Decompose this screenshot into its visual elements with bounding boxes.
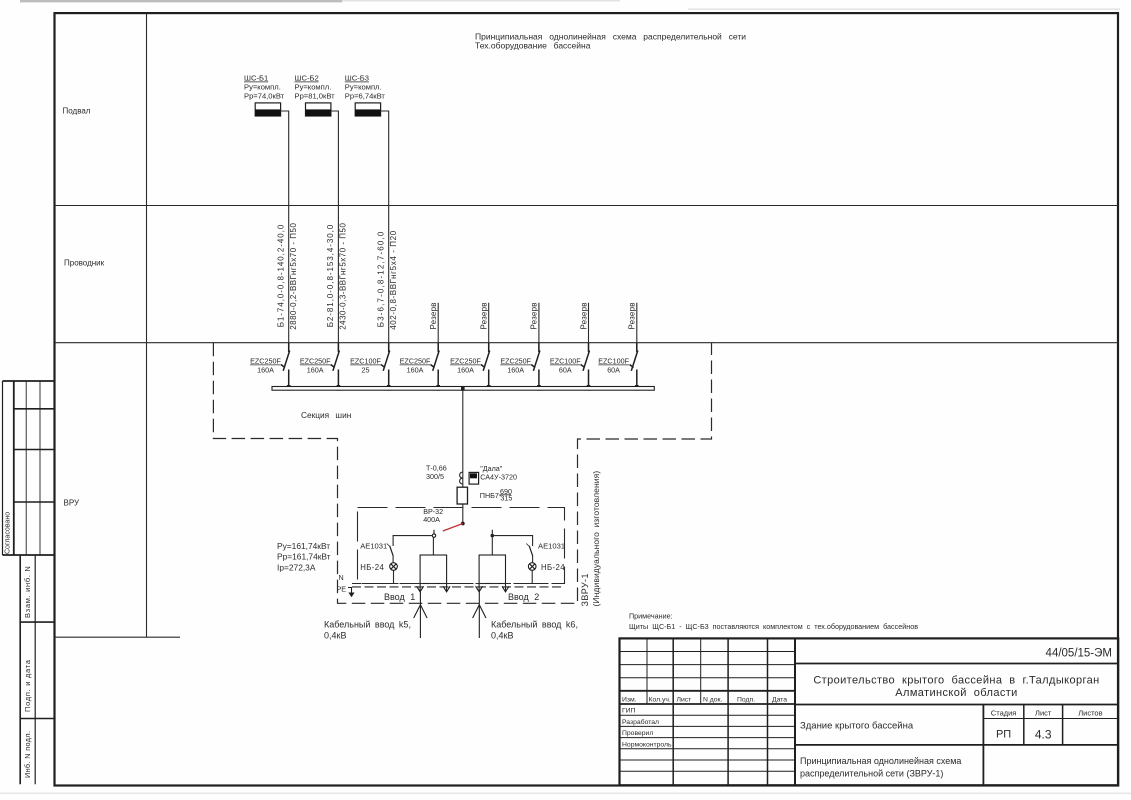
VRU outer dashed boundary xyxy=(213,343,711,604)
svg-text:Примечание:: Примечание: xyxy=(629,612,673,621)
breaker QF3 EZC100F 25 xyxy=(350,343,390,391)
svg-text:Рр=6,74кВт: Рр=6,74кВт xyxy=(345,91,386,100)
svg-text:EZC250F: EZC250F xyxy=(250,357,281,366)
branch bus 1 xyxy=(393,536,432,546)
svg-text:EZC100F: EZC100F xyxy=(550,357,581,366)
svg-text:Ру=компл.: Ру=компл. xyxy=(244,82,281,91)
svg-text:EZC100F: EZC100F xyxy=(598,357,629,366)
svg-text:44/05/15-ЭМ: 44/05/15-ЭМ xyxy=(1046,648,1112,660)
svg-text:Секция шин: Секция шин xyxy=(301,410,351,420)
svg-text:СА4У-3720: СА4У-3720 xyxy=(480,473,517,482)
svg-text:2430-0,3-ВВГнг5х70 - П50: 2430-0,3-ВВГнг5х70 - П50 xyxy=(339,223,348,330)
svg-text:Резерв: Резерв xyxy=(480,302,489,329)
svg-text:АЕ1031: АЕ1031 xyxy=(538,542,565,551)
svg-text:315: 315 xyxy=(500,494,512,503)
title block header labels xyxy=(622,697,787,749)
busbar section xyxy=(272,387,654,391)
left lower attachment boxes xyxy=(20,555,54,784)
svg-text:Подп.: Подп. xyxy=(737,697,755,704)
breaker AE1031 right xyxy=(529,546,532,556)
wire panel3 to feeder3 xyxy=(381,111,389,206)
svg-text:ВРУ: ВРУ xyxy=(64,499,80,508)
svg-text:Б3-6,7-0,8-12,7-60,0: Б3-6,7-0,8-12,7-60,0 xyxy=(377,231,386,328)
transfer box input 2 xyxy=(479,555,505,584)
row label column divider xyxy=(146,13,148,637)
cable k5 label xyxy=(324,619,411,640)
wire feeder2 xyxy=(337,206,339,353)
cable entry k5 xyxy=(414,592,427,638)
svg-text:Резерв: Резерв xyxy=(530,302,539,329)
svg-text:Лист: Лист xyxy=(1035,709,1052,718)
svg-text:Нормоконтроль: Нормоконтроль xyxy=(622,741,672,748)
svg-text:N: N xyxy=(339,573,344,582)
current transformer T-0,66 300/5 xyxy=(460,472,463,484)
svg-text:160A: 160A xyxy=(307,366,324,375)
svg-text:160A: 160A xyxy=(457,366,474,375)
svg-text:60A: 60A xyxy=(559,366,572,375)
svg-text:402-0,8-ВВГнг5х4 - П20: 402-0,8-ВВГнг5х4 - П20 xyxy=(389,230,398,330)
svg-text:ШС-Б3: ШС-Б3 xyxy=(345,74,369,83)
svg-text:Стадия: Стадия xyxy=(991,709,1017,718)
lamp NB-24 left xyxy=(390,563,398,571)
svg-text:EZC250F: EZC250F xyxy=(450,357,481,366)
reserve stub 1 xyxy=(437,303,439,352)
N bus dashed xyxy=(352,583,565,585)
breaker QF4 EZC250F 160A xyxy=(400,343,440,391)
wire feeder1 xyxy=(288,206,290,353)
svg-text:Кол.уч.: Кол.уч. xyxy=(649,697,671,704)
svg-text:160A: 160A xyxy=(257,366,274,375)
svg-text:Листов: Листов xyxy=(1078,709,1102,718)
svg-text:Резерв: Резерв xyxy=(579,302,588,329)
svg-text:Рр=74,0кВт: Рр=74,0кВт xyxy=(244,91,285,100)
switch VR-32 label xyxy=(423,507,443,524)
cable k6 label xyxy=(491,619,578,640)
svg-text:Алматинской области: Алматинской области xyxy=(895,687,1017,699)
svg-text:Рр=161,74кВт: Рр=161,74кВт xyxy=(277,552,331,562)
svg-text:Ввод 2: Ввод 2 xyxy=(508,592,539,602)
svg-text:Инб. N подл.: Инб. N подл. xyxy=(23,731,32,778)
reserve stub 3 xyxy=(538,303,540,352)
svg-text:ГИП: ГИП xyxy=(622,708,636,715)
panel ShS-B3 xyxy=(355,103,380,116)
svg-text:Дата: Дата xyxy=(772,697,787,704)
meter Dala SA4U-3720 xyxy=(469,472,479,484)
fuse PNB7 xyxy=(457,487,467,504)
breaker AE1031 left xyxy=(390,546,393,556)
svg-text:Рр=81,0кВт: Рр=81,0кВт xyxy=(295,91,336,100)
svg-text:Кабельный ввод k6,: Кабельный ввод k6, xyxy=(491,619,578,629)
svg-text:Строительство крытого бассейна: Строительство крытого бассейна в г.Талды… xyxy=(813,675,1099,687)
note text xyxy=(629,612,918,632)
breaker QF2 EZC250F 160A xyxy=(300,343,340,391)
svg-text:4.3: 4.3 xyxy=(1035,728,1052,742)
breaker QF8 EZC100F 60A xyxy=(598,343,638,391)
reserve stub 2 xyxy=(488,303,490,352)
power summary label xyxy=(277,541,331,572)
breaker QF7 EZC100F 60A xyxy=(550,343,590,391)
svg-text:Согласовано: Согласовано xyxy=(5,512,12,554)
panel ShS-B1 label xyxy=(244,74,285,101)
svg-text:Ввод 1: Ввод 1 xyxy=(384,592,415,602)
svg-text:Б1-74,0-0,8-140,2-40,0: Б1-74,0-0,8-140,2-40,0 xyxy=(277,224,286,328)
breaker QF5 EZC250F 160A xyxy=(450,343,490,391)
svg-text:Iр=272,3А: Iр=272,3А xyxy=(277,562,316,572)
cable entry k6 xyxy=(473,592,486,638)
svg-text:Разработал: Разработал xyxy=(622,718,659,726)
breaker QF6 EZC250F 160A xyxy=(500,343,540,391)
svg-text:25: 25 xyxy=(362,366,370,375)
left approval table xyxy=(3,381,55,555)
svg-text:РП: РП xyxy=(996,729,1011,741)
stage header xyxy=(991,709,1103,718)
branch bus 2 xyxy=(492,536,532,546)
wire panel2 to feeder2 xyxy=(331,111,339,206)
svg-text:ШС-Б1: ШС-Б1 xyxy=(244,74,268,83)
panel ShS-B3 label xyxy=(345,74,386,101)
box1 terminal stubs and arrows xyxy=(417,584,451,592)
wire AE1031 to lamp left xyxy=(392,556,394,563)
svg-text:Ру=161,74кВт: Ру=161,74кВт xyxy=(277,541,330,551)
lamp NB-24 right xyxy=(528,563,536,571)
panel ShS-B2 xyxy=(306,103,331,116)
switch VR-32 right fixed contact xyxy=(491,530,495,538)
panel ShS-B1 xyxy=(255,103,280,116)
fuse label with fraction xyxy=(480,487,513,502)
svg-text:EZC250F: EZC250F xyxy=(400,357,431,366)
panel ShS-B2 label xyxy=(295,74,336,101)
svg-text:EZC250F: EZC250F xyxy=(300,357,331,366)
svg-text:EZC100F: EZC100F xyxy=(350,357,381,366)
meter label xyxy=(480,464,517,482)
svg-text:400А: 400А xyxy=(423,515,440,524)
svg-text:Т-0,66: Т-0,66 xyxy=(426,463,447,472)
svg-text:Лист: Лист xyxy=(677,697,692,704)
switch VR-32 pivot node xyxy=(461,522,465,526)
svg-text:160A: 160A xyxy=(507,366,524,375)
svg-text:Проверил: Проверил xyxy=(622,730,653,737)
svg-text:(Индивидуального изготовления): (Индивидуального изготовления) xyxy=(591,471,601,607)
svg-text:Изм.: Изм. xyxy=(622,697,637,704)
svg-text:2880-0,2-ВВГнг5х70 - П50: 2880-0,2-ВВГнг5х70 - П50 xyxy=(289,223,298,330)
svg-text:распределительной сети (ЗВРУ-1: распределительной сети (ЗВРУ-1) xyxy=(800,769,943,779)
svg-text:Резерв: Резерв xyxy=(628,302,637,329)
svg-text:160A: 160A xyxy=(407,366,424,375)
svg-text:300/5: 300/5 xyxy=(426,472,444,481)
svg-text:НБ-24: НБ-24 xyxy=(360,563,384,572)
svg-text:0,4кВ: 0,4кВ xyxy=(324,630,346,640)
svg-text:"Дала": "Дала" xyxy=(480,464,503,473)
branch 1 drop to box xyxy=(432,537,434,555)
wire panel1 to feeder1 xyxy=(281,111,289,206)
wire busbar to CT xyxy=(462,390,464,523)
svg-text:Щиты ЩС-Б1 - ЩС-Б3 поставляютс: Щиты ЩС-Б1 - ЩС-Б3 поставляются комплект… xyxy=(629,622,918,631)
svg-text:АЕ1031: АЕ1031 xyxy=(360,542,387,551)
svg-text:НБ-24: НБ-24 xyxy=(541,563,565,572)
svg-text:Ру=компл.: Ру=компл. xyxy=(345,82,382,91)
box2 terminal stubs and arrows xyxy=(476,584,509,592)
svg-text:Здание крытого бассейна: Здание крытого бассейна xyxy=(800,721,914,732)
branch 2 drop to box xyxy=(491,537,493,555)
title block xyxy=(620,638,1119,785)
row divider basement/conductor xyxy=(55,205,1119,207)
svg-text:60A: 60A xyxy=(607,366,620,375)
label column bottom line xyxy=(55,636,181,638)
svg-text:Кабельный ввод k5,: Кабельный ввод k5, xyxy=(324,619,411,629)
svg-text:0,4кВ: 0,4кВ xyxy=(491,630,513,640)
ground symbol xyxy=(348,588,355,598)
PE bus dashed xyxy=(352,586,565,588)
wire lamp left to N bus xyxy=(393,570,395,583)
breaker QF1 EZC250F 160A xyxy=(250,343,290,391)
busbar junction center xyxy=(461,386,465,391)
transfer box input 1 xyxy=(420,555,447,584)
svg-text:Принципиальная однолинейная сх: Принципиальная однолинейная схема xyxy=(800,756,961,766)
AE1031 left leader xyxy=(387,544,391,548)
svg-text:Тех.оборудование бассейна: Тех.оборудование бассейна xyxy=(475,41,591,51)
svg-text:Ру=компл.: Ру=компл. xyxy=(295,82,332,91)
switch VR-32 red blade xyxy=(443,524,463,532)
svg-text:Проводник: Проводник xyxy=(64,259,105,268)
svg-text:PE: PE xyxy=(337,585,347,594)
svg-text:ШС-Б2: ШС-Б2 xyxy=(295,74,319,83)
svg-text:Подп. и дата: Подп. и дата xyxy=(23,659,32,712)
svg-text:EZC250F: EZC250F xyxy=(500,357,531,366)
svg-text:Взам. инб. N: Взам. инб. N xyxy=(23,565,32,618)
svg-text:Б2-81,0-0,8-153,4-30,0: Б2-81,0-0,8-153,4-30,0 xyxy=(326,224,335,328)
inner box ZVRU (dashed long) xyxy=(358,508,565,584)
wire AE1031 to lamp right xyxy=(532,556,534,563)
wire lamp right to N bus xyxy=(531,570,533,583)
row divider conductor/vru xyxy=(55,342,1119,344)
svg-text:N док.: N док. xyxy=(703,697,723,704)
svg-text:Подвал: Подвал xyxy=(63,107,91,116)
wire feeder3 xyxy=(388,206,390,353)
CT label xyxy=(426,463,447,481)
switch VR-32 left fixed contact xyxy=(432,530,435,538)
reserve stub 5 xyxy=(636,303,638,352)
AE1031 right leader xyxy=(526,544,530,548)
svg-text:ЗВРУ-1: ЗВРУ-1 xyxy=(580,573,590,606)
svg-text:ПНБ7-: ПНБ7- xyxy=(480,491,502,500)
svg-text:Резерв: Резерв xyxy=(429,302,438,329)
reserve stub 4 xyxy=(588,303,590,352)
